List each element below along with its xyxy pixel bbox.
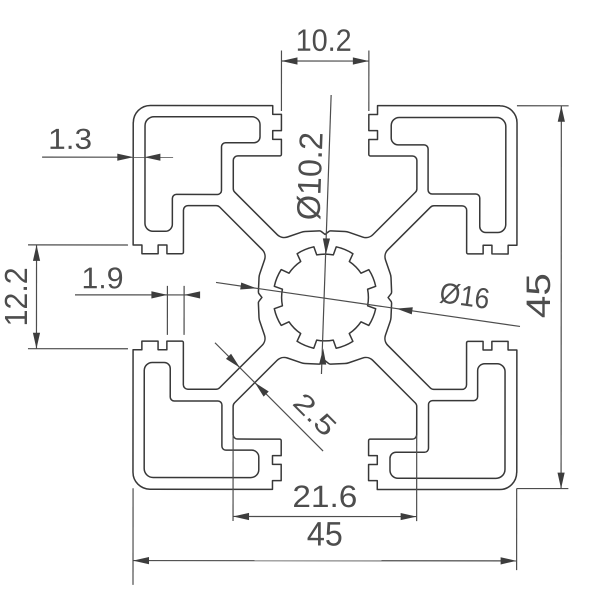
- dimension diameter 16 (center hub): [216, 281, 520, 326]
- corner cavity top-left: [145, 117, 260, 232]
- extrusion profile outer outline with four T-slots: [133, 105, 517, 489]
- dimension 45 (overall height, right): [517, 106, 569, 489]
- dimension 21.6 (slot inner width): [233, 435, 417, 521]
- dimension 10.2 (top slot opening): [281, 29, 368, 111]
- dimension 1.3 (wall thickness): [42, 129, 173, 161]
- corner cavity bottom-left: [144, 362, 259, 477]
- corner cavity top-right: [391, 117, 506, 232]
- dimension 1.9 (lip wall thickness): [75, 267, 200, 335]
- center splined bore: [274, 247, 375, 348]
- dimension 12.2 (left slot lip spacing): [5, 245, 128, 349]
- dimension 45 (overall width, bottom): [133, 488, 517, 585]
- dimension 2.5 (web thickness): [215, 343, 338, 451]
- corner cavity bottom-right: [390, 364, 505, 479]
- dimension diameter 10.2 (center bore): [296, 95, 331, 374]
